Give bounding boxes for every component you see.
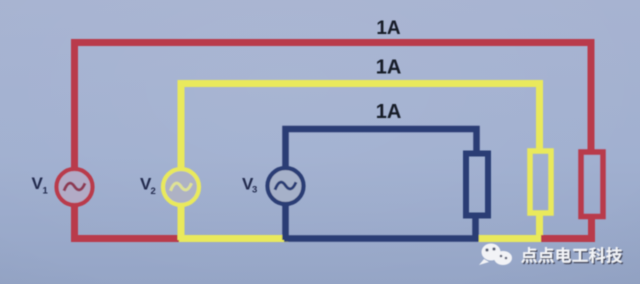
- source V3 sine symbol: [275, 182, 296, 190]
- source V2 sine symbol: [171, 183, 192, 191]
- resistor yellow R2: [530, 151, 551, 213]
- wire red bottom lead and bus right segment: [541, 219, 592, 239]
- source V1 sine symbol: [64, 183, 85, 191]
- wire red loop top (V1 left vertical, top run, right vertical): [75, 43, 592, 241]
- source V2 circle: [163, 169, 199, 205]
- wire blue loop top (V3 left vertical, top run, right vertical): [286, 129, 477, 240]
- resistor blue R3: [466, 154, 488, 216]
- svg-text:1: 1: [43, 186, 49, 197]
- svg-text:1A: 1A: [376, 57, 402, 79]
- wire red bottom bus left segment: [71, 235, 184, 242]
- svg-text:1A: 1A: [376, 18, 401, 39]
- source V1 circle: [57, 169, 93, 205]
- svg-text:2: 2: [151, 186, 156, 197]
- wire blue bottom bus segment and lead: [284, 215, 476, 239]
- svg-text:3: 3: [252, 185, 257, 196]
- source V3 circle: [268, 168, 304, 204]
- watermark logo bubbles: [479, 244, 512, 266]
- resistor red R1: [581, 152, 603, 217]
- wire yellow loop top (V2 left vertical, top run, right vertical): [181, 84, 540, 241]
- svg-text:1A: 1A: [376, 101, 402, 123]
- wire yellow bottom bus middle segment: [179, 235, 288, 242]
- wire yellow bottom lead and bus segment right: [479, 213, 540, 239]
